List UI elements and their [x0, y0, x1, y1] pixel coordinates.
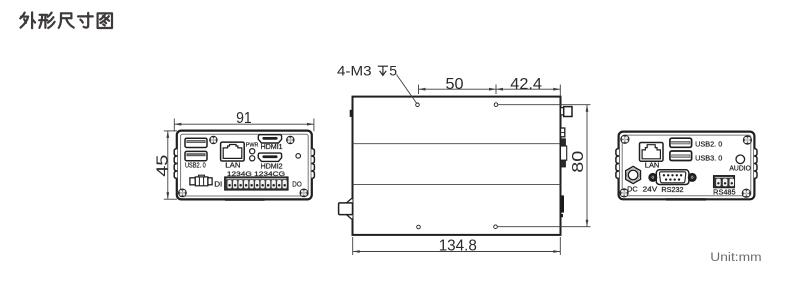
USB port lower — [185, 151, 207, 160]
svg-text:DI: DI — [214, 179, 222, 188]
mounting hole top-1 — [416, 103, 420, 107]
screw front top-left — [210, 136, 218, 144]
dim 91 line — [174, 123, 314, 125]
svg-text:80: 80 — [570, 151, 587, 173]
mounting hole top-2 — [494, 103, 498, 107]
svg-text:Unit:mm: Unit:mm — [710, 252, 761, 264]
USB2.0 port rear — [670, 138, 692, 147]
svg-text:91: 91 — [236, 110, 252, 127]
svg-text:LAN: LAN — [645, 162, 660, 169]
screw front bottom-right — [300, 189, 308, 197]
HDMI1 port — [258, 135, 281, 143]
svg-text:5: 5 — [389, 63, 397, 79]
svg-text:RS232: RS232 — [661, 185, 683, 194]
svg-text:DC: DC — [627, 185, 638, 194]
svg-text:PWR: PWR — [246, 142, 259, 148]
dim 45 extension lines — [164, 130, 177, 132]
right side DB9 profile — [561, 139, 566, 146]
dim 80 extension lines — [498, 104, 591, 106]
PWR LED 2 — [250, 156, 255, 161]
svg-text:USB2. 0: USB2. 0 — [185, 163, 206, 170]
rear left mounting ear — [616, 149, 619, 179]
left side power plug protrusion — [346, 199, 352, 219]
power plug icon — [190, 175, 212, 186]
dim 134.8 line — [353, 251, 561, 253]
rear view case body — [619, 132, 755, 200]
svg-text:45: 45 — [154, 154, 171, 176]
rear view inner panel — [622, 135, 751, 196]
DC power jack — [626, 166, 641, 183]
svg-text:USB2. 0: USB2. 0 — [695, 140, 722, 149]
right side terminal bar — [561, 195, 564, 212]
screw rear top-right — [743, 136, 751, 144]
svg-text:AUDIO: AUDIO — [729, 166, 751, 173]
svg-text:USB3. 0: USB3. 0 — [695, 153, 722, 162]
right side SMA connector — [561, 108, 564, 115]
svg-text:HDMI1: HDMI1 — [261, 144, 283, 151]
LAN port rear — [640, 143, 664, 162]
svg-text:50: 50 — [446, 76, 464, 93]
screw rear bottom-right — [742, 189, 750, 197]
DI/DO terminal block — [225, 177, 288, 190]
dim 50 ticks — [418, 85, 420, 95]
svg-text:24V: 24V — [643, 185, 658, 194]
rear right mounting ear — [754, 149, 757, 179]
rear bottom tab — [666, 198, 706, 200]
screw front bottom-left — [178, 189, 186, 197]
dim 80 line — [586, 105, 588, 227]
svg-text:LAN: LAN — [225, 163, 240, 170]
LAN port front — [221, 142, 245, 161]
PWR LED 1 — [250, 149, 255, 154]
dim 50 line — [419, 88, 497, 90]
front view inner panel — [181, 134, 309, 196]
RS485 terminal block — [714, 176, 735, 188]
depth symbol — [378, 66, 388, 75]
svg-text:DO: DO — [292, 179, 302, 188]
HDMI2 port — [258, 153, 281, 161]
leader line 4-M3 — [397, 75, 417, 104]
screw rear top-left — [621, 135, 629, 143]
screw front top-right — [287, 136, 295, 144]
screw rear bottom-left — [620, 189, 628, 197]
RS232 DB9 connector — [656, 170, 689, 185]
RS232 screw right — [689, 174, 696, 181]
AUDIO jack — [736, 155, 745, 164]
front bottom tab — [225, 198, 265, 200]
left edge nub — [350, 110, 353, 117]
dim 91 extension lines — [173, 119, 175, 132]
svg-text:HDMI2: HDMI2 — [261, 164, 283, 171]
svg-text:42.4: 42.4 — [510, 76, 542, 93]
side view panel line upper — [353, 143, 561, 145]
svg-text:4-M3: 4-M3 — [337, 63, 372, 79]
side view panel line lower — [353, 183, 561, 185]
dim 45 line — [167, 131, 169, 199]
front view case body — [177, 131, 312, 200]
dim 42.4 line — [496, 88, 560, 90]
mounting hole bottom-1 — [417, 225, 421, 229]
USB3.0 port rear — [670, 151, 692, 161]
svg-text:RS485: RS485 — [713, 187, 735, 196]
small hole front right — [296, 154, 301, 159]
side view case body — [353, 97, 561, 235]
right side small bump — [561, 128, 565, 137]
USB port upper — [185, 138, 207, 147]
front left mounting ear — [174, 149, 177, 179]
RS232 screw left — [650, 174, 657, 181]
mounting hole bottom-2 — [494, 225, 498, 229]
title 外形尺寸图 — [20, 12, 112, 28]
dim 134.8 extension lines — [352, 237, 354, 255]
svg-text:134.8: 134.8 — [439, 237, 477, 254]
front right mounting ear — [311, 149, 314, 179]
